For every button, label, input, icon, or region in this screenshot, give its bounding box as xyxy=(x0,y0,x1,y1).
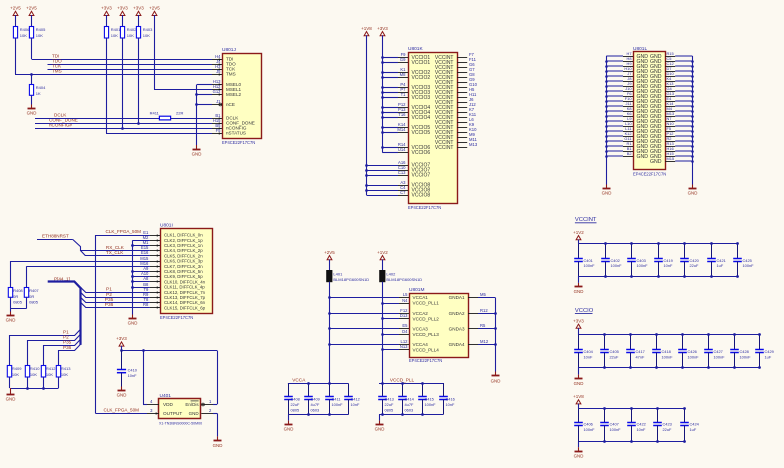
svg-text:U801M: U801M xyxy=(409,287,424,293)
wire VCCINT rail top xyxy=(579,243,738,245)
svg-text:+3V3: +3V3 xyxy=(133,6,144,11)
pin R12 GNDA2 of U801M xyxy=(468,308,488,313)
wire P1 bus entry to CLK12 xyxy=(81,287,150,292)
svg-text:C421: C421 xyxy=(717,258,726,263)
resistor R403 xyxy=(136,27,153,39)
pin K13 GND of U801L xyxy=(665,86,675,88)
ground xyxy=(375,421,385,432)
svg-text:4u7F: 4u7F xyxy=(311,402,320,407)
pin F7 VCCINT of U801K xyxy=(457,52,474,57)
junction xyxy=(494,312,497,315)
junction xyxy=(381,86,384,89)
svg-text:EP4CE22F17C7N: EP4CE22F17C7N xyxy=(633,172,666,177)
pin H12 MSEL1 of U801J xyxy=(212,84,222,91)
junction xyxy=(381,71,384,74)
pin H7 GND of U801L xyxy=(623,56,633,58)
pin E16 CLK5 of U801I xyxy=(141,250,160,257)
pin G7 VCCINT of U801K xyxy=(457,67,475,72)
wire VCCD_PLL branch xyxy=(382,349,399,351)
svg-text:MSEL2: MSEL2 xyxy=(226,92,242,97)
pin R8 CLK15 of U801I xyxy=(143,302,160,309)
junction xyxy=(131,280,134,283)
wire VCCIO78 branch xyxy=(367,195,399,197)
svg-text:10nF: 10nF xyxy=(664,263,673,268)
pin K9 VCCINT of U801K xyxy=(457,122,475,127)
svg-text:0R: 0R xyxy=(29,294,34,299)
pin M15 GND of U801L xyxy=(665,161,675,163)
svg-text:C424: C424 xyxy=(690,422,700,427)
junction xyxy=(328,296,331,299)
wire VCCIO78 branch xyxy=(367,170,399,172)
pin L12 VCCA4 of U801M xyxy=(399,339,409,344)
svg-text:VCCA2: VCCA2 xyxy=(413,311,429,316)
FPGA power bank U801K xyxy=(408,46,458,210)
right ground bus of U801L xyxy=(692,56,694,185)
svg-text:VCCIO: VCCIO xyxy=(575,308,594,314)
wire VCCD_PLL branch xyxy=(382,334,399,336)
svg-text:EP4CE22F17C7N: EP4CE22F17C7N xyxy=(222,140,255,145)
junction xyxy=(381,131,384,134)
svg-text:C407: C407 xyxy=(610,422,619,427)
junction xyxy=(629,333,632,336)
wire +3V3 to R402 xyxy=(122,15,124,27)
svg-text:C428: C428 xyxy=(740,349,749,354)
svg-text:C411: C411 xyxy=(332,397,341,402)
svg-text:10K: 10K xyxy=(61,372,68,377)
pin M16 CLK7 of U801I xyxy=(140,261,160,268)
svg-text:GNDA1: GNDA1 xyxy=(449,295,465,300)
pin R5 GNDA3 of U801M xyxy=(468,323,486,328)
wire ETH88NRST xyxy=(37,239,73,241)
pin H9 GND of U801L xyxy=(623,66,633,68)
svg-text:B2: B2 xyxy=(627,151,632,156)
wire VCCD_PLL rail top xyxy=(379,383,444,385)
pin B8 CLK11 of U801I xyxy=(143,282,160,289)
svg-text:R413: R413 xyxy=(61,366,71,371)
pin K6 GND of U801L xyxy=(623,116,633,118)
wire DCLK xyxy=(35,118,159,120)
wire +1V8 to rail xyxy=(578,404,580,409)
pin M11 VCCINT of U801K xyxy=(457,137,477,142)
wire VCCA net xyxy=(329,282,331,383)
capacitor C418 xyxy=(652,335,673,368)
power +1V8 xyxy=(573,394,584,405)
svg-text:10K: 10K xyxy=(46,372,53,377)
pin M9 VCCINT of U801K xyxy=(457,132,475,137)
ground xyxy=(574,375,584,386)
wire VCCIO branch xyxy=(382,97,398,99)
FPGA clock bank U801I xyxy=(160,223,213,321)
pin G4 GND of U801L xyxy=(665,91,675,93)
svg-text:100nF: 100nF xyxy=(740,355,752,360)
pin J5 TMS of U801J xyxy=(212,69,222,76)
pin K4 GND of U801L xyxy=(665,81,675,83)
wire R401 to nSTATUS xyxy=(106,38,108,133)
resistor R408 xyxy=(8,288,23,305)
capacitor C403 xyxy=(627,244,648,277)
svg-text:G12: G12 xyxy=(213,89,222,94)
resistor R402 xyxy=(120,27,137,39)
ferrite bead L401 xyxy=(327,271,370,283)
wire CLK8 ground stub xyxy=(133,271,150,273)
pin M1 CLK3 of U801I xyxy=(143,240,160,247)
svg-text:R411: R411 xyxy=(150,110,160,115)
junction xyxy=(365,169,368,172)
left ground bus of U801L xyxy=(606,56,608,185)
wire GNDA xyxy=(478,328,495,330)
pin J9 GND of U801L xyxy=(623,86,633,88)
capacitor C404 xyxy=(574,335,593,368)
pin A10 CLK9 of U801I xyxy=(141,271,160,278)
pin J6 VCCINT of U801K xyxy=(457,97,474,102)
junction xyxy=(655,333,658,336)
svg-text:C409: C409 xyxy=(311,397,320,402)
wire R411 to DCLK pin xyxy=(171,118,212,120)
svg-text:100nF: 100nF xyxy=(425,402,437,407)
capacitor C413 xyxy=(378,384,394,415)
wire P2 to R410 xyxy=(28,334,81,365)
wire TDO xyxy=(48,64,213,66)
wire VCCIO branch xyxy=(382,77,398,79)
capacitor C422 xyxy=(627,409,646,442)
svg-text:GNDA3: GNDA3 xyxy=(449,327,465,332)
ground xyxy=(574,447,584,458)
svg-text:VCCA4: VCCA4 xyxy=(413,342,429,347)
svg-text:C419: C419 xyxy=(664,258,673,263)
junction xyxy=(381,96,384,99)
section title VCCINT xyxy=(575,217,597,223)
wire to ground xyxy=(288,415,290,421)
pin E4 GND of U801L xyxy=(665,101,675,103)
svg-text:+1V2: +1V2 xyxy=(573,230,584,235)
svg-text:10nF: 10nF xyxy=(584,355,593,360)
svg-text:22uF: 22uF xyxy=(663,427,672,432)
wire VCCIO branch xyxy=(382,72,398,74)
svg-text:GND: GND xyxy=(688,191,698,196)
svg-text:GND: GND xyxy=(650,159,662,165)
power +1V2 xyxy=(573,230,584,241)
svg-text:nCE: nCE xyxy=(226,102,235,107)
svg-text:P2: P2 xyxy=(106,292,112,298)
resistor R412 xyxy=(41,366,56,378)
svg-text:C412: C412 xyxy=(351,397,360,402)
svg-text:N13: N13 xyxy=(400,344,408,349)
pin M15 CLK6 of U801I xyxy=(140,256,160,263)
pin K7 VCCINT of U801K xyxy=(457,107,475,112)
pin K1 VCCIO2 of U801K xyxy=(398,67,408,72)
svg-text:EP4CE22F17C7N: EP4CE22F17C7N xyxy=(409,358,442,363)
pin M13 VCCINT of U801K xyxy=(457,142,478,147)
capacitor C410 xyxy=(117,351,138,387)
pin H8 GND of U801L xyxy=(623,61,633,63)
svg-text:BLM18PG600SN1D: BLM18PG600SN1D xyxy=(386,277,422,282)
svg-text:22uF: 22uF xyxy=(385,402,394,407)
pin L9 GND of U801L xyxy=(623,121,633,123)
svg-text:VDD: VDD xyxy=(163,402,174,407)
svg-text:100nF: 100nF xyxy=(714,355,726,360)
svg-text:VCCIO5: VCCIO5 xyxy=(412,130,431,136)
svg-text:GND: GND xyxy=(128,321,138,326)
junction MSEL2 xyxy=(195,93,198,96)
ground xyxy=(602,185,612,196)
ferrite bead L402 xyxy=(380,271,423,283)
wire GNDA xyxy=(478,297,495,299)
pin H5 VCCINT of U801K xyxy=(457,87,475,92)
svg-text:GND: GND xyxy=(6,397,16,402)
pin F5 nSTATUS of U801J xyxy=(212,128,222,135)
wire R410 to ground xyxy=(27,377,29,388)
wire VCCIO78 branch xyxy=(367,175,399,177)
junction xyxy=(381,56,384,59)
pin H15 CONF_DONE of U801J xyxy=(212,118,222,125)
wire +3V3 to osc xyxy=(121,346,123,351)
svg-text:EP4CE22F17C7N: EP4CE22F17C7N xyxy=(160,315,193,320)
svg-text:D4: D4 xyxy=(402,329,408,334)
svg-text:0R: 0R xyxy=(13,294,18,299)
wire rail to ground xyxy=(578,367,580,375)
power +3V3 xyxy=(116,336,127,347)
svg-text:M12: M12 xyxy=(480,339,489,344)
pin T8 CLK14 of U801I xyxy=(144,297,160,304)
capacitor C411 xyxy=(325,384,343,415)
pin C7 VCCIO8 of U801K xyxy=(398,190,408,195)
pin L6 VCCINT of U801K xyxy=(457,117,474,122)
junction xyxy=(365,164,368,167)
svg-text:+3V3: +3V3 xyxy=(101,6,112,11)
svg-text:P1: P1 xyxy=(106,287,112,293)
junction xyxy=(736,242,739,245)
ground xyxy=(284,421,294,432)
FPGA ground bank U801L xyxy=(633,46,666,177)
svg-text:0603: 0603 xyxy=(405,408,414,413)
pin C5 GND of U801L xyxy=(665,61,675,63)
FPGA PLL bank U801M xyxy=(409,287,469,363)
svg-text:R410: R410 xyxy=(30,366,40,371)
pin A9 CLK8 of U801I xyxy=(143,266,160,273)
power +2V5 xyxy=(26,6,37,17)
junction xyxy=(381,111,384,114)
wire P2 bus entry to CLK13 xyxy=(81,292,150,297)
power +2V5 xyxy=(324,250,335,261)
pin E15 CLK4 of U801I xyxy=(141,245,160,252)
svg-text:VCCIO3: VCCIO3 xyxy=(412,95,431,101)
wire CLK7 from R407 xyxy=(27,266,150,268)
power +3V3 xyxy=(377,26,388,37)
pin M8 VCCIO2 of U801K xyxy=(398,72,408,77)
svg-text:+3V3: +3V3 xyxy=(116,336,127,341)
svg-text:1uF: 1uF xyxy=(717,263,724,268)
svg-text:22uF: 22uF xyxy=(610,355,619,360)
svg-text:1K: 1K xyxy=(36,91,41,96)
svg-text:0805: 0805 xyxy=(13,299,23,304)
pin H4 TDI of U801J xyxy=(212,54,222,61)
pin G6 VCCINT of U801K xyxy=(457,62,475,67)
wire VCCD_PLL rail bottom xyxy=(379,414,443,416)
wire +1V2 to L402 xyxy=(382,260,384,271)
wire VCCINT rail bottom xyxy=(579,276,738,278)
wire R403 to CONF_DONE xyxy=(138,38,140,123)
svg-text:CLK15, DIFFCLK_6p: CLK15, DIFFCLK_6p xyxy=(164,305,206,310)
svg-text:0805: 0805 xyxy=(385,408,394,413)
capacitor C419 xyxy=(654,244,673,277)
junction xyxy=(494,343,497,346)
junction xyxy=(131,244,134,247)
junction xyxy=(307,382,310,385)
junction xyxy=(328,327,331,330)
pin N4 VCCD_PLL1 of U801M xyxy=(399,298,409,303)
svg-text:1uF: 1uF xyxy=(765,355,772,360)
pin M5 GNDA1 of U801M xyxy=(468,292,486,297)
svg-text:P36: P36 xyxy=(63,345,72,350)
wire P35 to R412 xyxy=(44,339,81,365)
svg-text:GND: GND xyxy=(574,289,584,294)
svg-text:R412: R412 xyxy=(46,366,56,371)
svg-text:10nF: 10nF xyxy=(446,402,455,407)
svg-text:M13: M13 xyxy=(469,142,478,147)
capacitor C424 xyxy=(680,409,699,442)
svg-text:10K: 10K xyxy=(20,33,27,38)
junction xyxy=(131,275,134,278)
wire VDD branch xyxy=(143,351,145,405)
svg-text:100nF: 100nF xyxy=(611,263,623,268)
junction xyxy=(131,270,134,273)
power +1V2 xyxy=(377,250,388,261)
wire VCCD_PLL net xyxy=(382,282,384,383)
svg-text:CLK_FPGA_50M: CLK_FPGA_50M xyxy=(104,407,140,412)
pin D4 VCCD_PLL3 of U801M xyxy=(399,329,409,334)
svg-text:C408: C408 xyxy=(291,397,300,402)
FPGA config bank U801J xyxy=(222,47,262,145)
pin D10 GND of U801L xyxy=(665,76,675,78)
svg-text:R409: R409 xyxy=(12,366,22,371)
pin N7 GND of U801L xyxy=(665,121,675,123)
pin P4 VCCIO3 of U801K xyxy=(398,82,408,87)
pin H13 MSEL0 of U801J xyxy=(212,79,222,86)
pin J7 GND of U801L xyxy=(623,76,633,78)
pin M2 CLK2 of U801I xyxy=(143,235,160,242)
svg-text:C423: C423 xyxy=(663,422,672,427)
svg-text:G9: G9 xyxy=(400,57,406,62)
junction C410 xyxy=(120,349,123,352)
wire +1V2 to rail xyxy=(578,240,580,244)
pin A8 CLK10 of U801I xyxy=(143,276,160,283)
svg-text:C420: C420 xyxy=(690,258,700,263)
capacitor C402 xyxy=(601,244,622,277)
ground xyxy=(27,105,37,116)
junction xyxy=(131,286,134,289)
wire VCCIO branch xyxy=(382,57,398,59)
pin P7 VCCIO3 of U801K xyxy=(398,87,408,92)
ground xyxy=(491,372,501,384)
wire VCCIO branch xyxy=(382,92,398,94)
power +3V3 xyxy=(133,6,144,17)
svg-text:100nF: 100nF xyxy=(584,427,596,432)
junction xyxy=(381,317,384,320)
junction TMS/R404 xyxy=(30,73,33,76)
wire rail bottom xyxy=(578,441,684,443)
svg-text:C429: C429 xyxy=(765,349,774,354)
svg-text:+3V3: +3V3 xyxy=(377,26,388,31)
svg-text:+3V3: +3V3 xyxy=(573,318,584,323)
wire +2V5 to L401 xyxy=(329,260,331,271)
pin U14 VCCIO6 of U801K xyxy=(398,147,408,152)
ground xyxy=(213,436,223,447)
svg-text:U801K: U801K xyxy=(408,46,423,52)
wire VCCIO78 branch xyxy=(367,185,399,187)
wire +3V3 rail xyxy=(382,35,384,152)
svg-text:C402: C402 xyxy=(611,258,620,263)
pin T9 CLK12 of U801I xyxy=(144,287,160,294)
wire +2V5 to R406 xyxy=(15,15,17,27)
capacitor C415 xyxy=(418,384,436,415)
resistor R405 xyxy=(29,27,46,39)
junction xyxy=(604,242,607,245)
svg-text:VCCA: VCCA xyxy=(292,377,306,382)
pin D13 VCCD_PLL2 of U801M xyxy=(399,313,409,318)
svg-text:N4: N4 xyxy=(402,298,408,303)
pin G9 VCCINT of U801K xyxy=(457,77,475,82)
pin B5 nCONFIG of U801J xyxy=(212,123,222,130)
svg-text:M14: M14 xyxy=(397,127,406,132)
capacitor C420 xyxy=(680,244,699,277)
svg-text:C418: C418 xyxy=(662,349,671,354)
wire VCCIO rail top xyxy=(579,334,760,336)
junction xyxy=(381,348,384,351)
svg-text:R405: R405 xyxy=(36,27,46,32)
svg-text:GND: GND xyxy=(189,411,200,416)
svg-text:+2V5: +2V5 xyxy=(149,6,160,11)
junction xyxy=(381,106,384,109)
svg-text:VCCA3: VCCA3 xyxy=(413,327,429,332)
svg-text:M15: M15 xyxy=(667,156,675,161)
wire P36 bus entry to CLK15 xyxy=(81,302,150,307)
svg-text:P35: P35 xyxy=(105,297,114,303)
wire rail to ground xyxy=(578,276,580,283)
svg-text:VCCIO6: VCCIO6 xyxy=(412,150,431,156)
wire nCONFIG xyxy=(35,128,212,130)
wire VCCD_PLL branch xyxy=(382,303,399,305)
junction xyxy=(401,382,404,385)
pin T16 VCCIO4 of U801K xyxy=(398,112,408,117)
pin G11 GND of U801L xyxy=(623,141,633,143)
svg-text:C417: C417 xyxy=(636,349,645,354)
junction xyxy=(328,382,331,385)
pin K14 GND of U801L xyxy=(665,106,675,108)
svg-text:U801J: U801J xyxy=(222,47,236,53)
resistor R413 xyxy=(56,366,71,378)
svg-text:C403: C403 xyxy=(637,258,646,263)
wire +1V8 rail xyxy=(366,35,368,195)
pin 1 En/Dis of U401 xyxy=(201,399,213,406)
pin F11 VCCINT of U801K xyxy=(457,57,476,62)
pin K12 GND of U801L xyxy=(623,136,633,138)
svg-text:C414: C414 xyxy=(405,397,415,402)
wire CLK2 to ground bus xyxy=(133,240,150,242)
svg-text:EP4CE22F17C7N: EP4CE22F17C7N xyxy=(408,205,441,210)
svg-text:GNDA4: GNDA4 xyxy=(449,342,465,347)
wire R404 to ground xyxy=(31,96,33,105)
wire VCCIO branch xyxy=(382,107,398,109)
wire +3V3 to rail xyxy=(578,328,580,335)
wire VCCIO branch xyxy=(382,117,398,119)
junction xyxy=(683,242,686,245)
svg-text:GND: GND xyxy=(375,427,385,432)
capacitor C407 xyxy=(600,409,621,442)
wire rail to ground xyxy=(578,441,580,447)
pin H10 GND of U801L xyxy=(623,71,633,73)
svg-text:10K: 10K xyxy=(36,33,43,38)
wire GNDA bus xyxy=(495,298,497,372)
